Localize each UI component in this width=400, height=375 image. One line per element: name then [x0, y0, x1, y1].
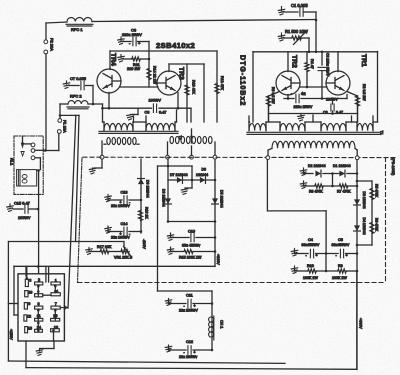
svg-text:8: 8	[38, 302, 40, 306]
svg-text:TR4: TR4	[110, 53, 117, 66]
svg-text:R15 100K 1W: R15 100K 1W	[179, 256, 202, 260]
svg-text:13: 13	[54, 326, 58, 330]
svg-text:D9 1S1944: D9 1S1944	[146, 180, 150, 198]
svg-text:CH 1: CH 1	[220, 320, 224, 328]
svg-text:C15 0.47: C15 0.47	[14, 201, 30, 206]
svg-text:+150V: +150V	[9, 329, 13, 340]
svg-text:220 2W: 220 2W	[127, 67, 141, 71]
svg-text:C8 100u 35WV: C8 100u 35WV	[326, 53, 330, 77]
svg-text:DTG-110Bx2: DTG-110Bx2	[239, 55, 246, 106]
svg-text:1: 1	[55, 278, 57, 282]
svg-text:2SB410x2: 2SB410x2	[156, 41, 195, 50]
svg-text:C10: C10	[188, 230, 195, 234]
svg-text:C9: C9	[145, 111, 150, 115]
svg-text:R8 470K: R8 470K	[309, 190, 323, 194]
svg-text:D4 1S1944: D4 1S1944	[362, 218, 366, 235]
svg-text:CT 0.005: CT 0.005	[70, 76, 86, 81]
svg-text:R3 0.5 2W: R3 0.5 2W	[271, 87, 275, 104]
svg-text:R9: R9	[338, 264, 343, 268]
svg-text:R17 10K: R17 10K	[97, 245, 112, 249]
svg-text:+: +	[302, 92, 304, 96]
svg-text:22u 200Wv: 22u 200Wv	[179, 355, 197, 359]
svg-text:16: 16	[28, 291, 32, 295]
svg-text:22u 160WV: 22u 160WV	[111, 236, 130, 240]
svg-text:TR2: TR2	[291, 55, 298, 68]
svg-text:R2 0.5 2W: R2 0.5 2W	[362, 84, 366, 101]
svg-text:RFC 1: RFC 1	[71, 27, 83, 32]
svg-text:7: 7	[55, 302, 57, 306]
svg-text:R14 22 1W: R14 22 1W	[153, 66, 157, 85]
svg-text:9: 9	[28, 302, 30, 306]
svg-text:R12 47K: R12 47K	[220, 76, 224, 91]
svg-text:C1 0.005: C1 0.005	[291, 3, 308, 8]
svg-text:100WV: 100WV	[149, 99, 162, 103]
svg-text:D1 1S1944: D1 1S1944	[333, 164, 351, 168]
svg-text:R13 47K: R13 47K	[192, 80, 196, 95]
svg-text:-100V: -100V	[142, 239, 146, 249]
svg-text:35u 450Wv: 35u 450Wv	[182, 244, 200, 248]
svg-text:100K 1W: 100K 1W	[332, 276, 347, 280]
svg-text:R6 470K: R6 470K	[375, 218, 379, 232]
svg-text:RFC 2: RFC 2	[70, 94, 82, 99]
svg-text:D3 1S1944: D3 1S1944	[362, 192, 366, 209]
svg-text:3: 3	[29, 279, 31, 283]
svg-text:C13: C13	[121, 191, 128, 195]
svg-text:RL1: RL1	[10, 158, 15, 166]
svg-text:D7 1S1944: D7 1S1944	[170, 173, 188, 177]
svg-text:C6: C6	[131, 28, 137, 33]
svg-text:C12: C12	[186, 340, 193, 344]
svg-text:(PB-1062): (PB-1062)	[391, 158, 395, 176]
svg-text:33u450WV: 33u450WV	[332, 243, 350, 247]
svg-text:C5: C5	[338, 238, 343, 242]
svg-text:VR1 20K B: VR1 20K B	[114, 256, 133, 260]
svg-text:D5 1S1944: D5 1S1944	[220, 190, 224, 208]
svg-text:2: 2	[38, 278, 40, 282]
svg-text:1S1944: 1S1944	[196, 173, 208, 177]
svg-text:220u 25WV: 220u 25WV	[122, 33, 142, 37]
svg-text:C4: C4	[308, 238, 313, 242]
svg-text:220u 25WV: 220u 25WV	[294, 105, 313, 109]
svg-text:R7 470K: R7 470K	[337, 190, 351, 194]
svg-text:C14: C14	[121, 222, 128, 226]
svg-text:+300V: +300V	[216, 254, 220, 265]
svg-text:R4 47: R4 47	[310, 59, 314, 69]
svg-text:TR1: TR1	[360, 54, 367, 67]
svg-text:R1 500 10W: R1 500 10W	[285, 29, 308, 34]
svg-text:0.47: 0.47	[159, 111, 166, 115]
svg-text:D2 1S1944: D2 1S1944	[308, 164, 326, 168]
svg-text:C11: C11	[186, 294, 193, 298]
svg-text:12: 12	[27, 314, 31, 318]
svg-text:F2 20A: F2 20A	[50, 38, 55, 51]
svg-text:T1: T1	[380, 131, 384, 135]
svg-text:33u450WV: 33u450WV	[302, 243, 320, 247]
svg-text:R10: R10	[307, 264, 314, 268]
svg-text:R5 470K: R5 470K	[375, 184, 379, 198]
svg-text:TR3: TR3	[178, 67, 185, 80]
svg-text:D6: D6	[202, 168, 207, 172]
svg-text:22u 160WV: 22u 160WV	[111, 204, 130, 208]
svg-text:100WV: 100WV	[18, 216, 31, 220]
svg-text:D8 1S1944: D8 1S1944	[162, 189, 166, 207]
svg-text:100K 1W: 100K 1W	[303, 276, 318, 280]
svg-text:22u 200WV: 22u 200WV	[179, 309, 198, 313]
svg-text:+600V: +600V	[359, 318, 363, 329]
svg-text:R16 1K: R16 1K	[145, 207, 149, 219]
svg-text:F1 10A: F1 10A	[63, 120, 68, 133]
svg-text:15: 15	[28, 326, 32, 330]
